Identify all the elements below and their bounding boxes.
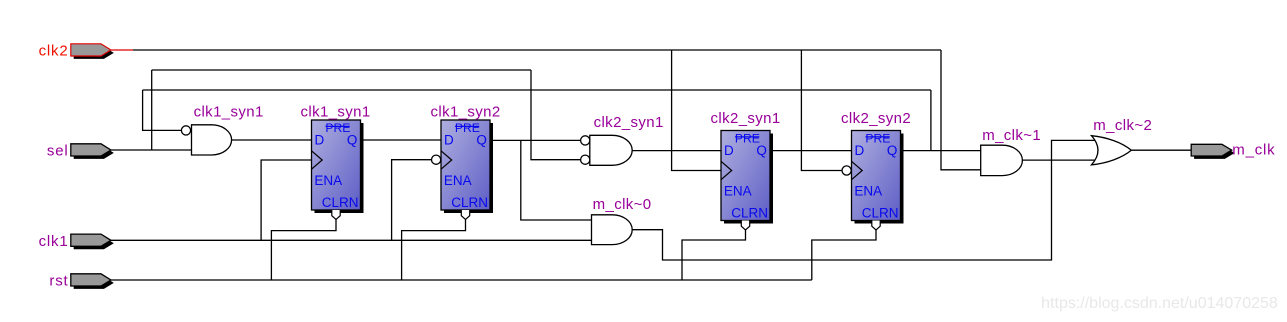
wire clk2_syn1 CLRN to rst [682, 230, 746, 280]
wire feedback drop to clk1_syn1 gate upper bubble [143, 90, 182, 130]
wire m_clk2_syn2 Q feedback y=90 [143, 89, 931, 91]
wire m_clk~2 output to output pin [1131, 149, 1191, 151]
wire clk2_syn1 gate output to clk2_syn1 D [632, 150, 721, 152]
input pin clk2 (red highlighted) [39, 43, 114, 60]
wire clk1_syn1 Q to clk1_syn2 D [361, 139, 442, 141]
svg-text:clk1: clk1 [39, 233, 69, 250]
wire sel feedback top y=70 [152, 69, 531, 71]
svg-text:CLRN: CLRN [862, 205, 899, 220]
svg-text:Q: Q [347, 132, 358, 147]
svg-text:clk2: clk2 [39, 43, 69, 60]
svg-text:clk2_syn1: clk2_syn1 [594, 114, 664, 131]
svg-text:clk1_syn2: clk1_syn2 [431, 103, 501, 120]
gate clk1_syn1 (AND, inverted upper input) [181, 103, 263, 155]
svg-text:https://blog.csdn.net/u0140702: https://blog.csdn.net/u014070258 [1041, 295, 1278, 312]
flip-flop clk2_syn1 (DFF) [711, 110, 781, 230]
output pin m_clk [1191, 141, 1275, 159]
svg-text:rst: rst [49, 273, 68, 290]
svg-text:clk2_syn1: clk2_syn1 [711, 110, 781, 127]
svg-text:ENA: ENA [444, 173, 472, 188]
svg-text:D: D [444, 132, 454, 147]
svg-text:D: D [315, 132, 325, 147]
wire clk2_syn2 Q to m_clk~1 upper input [901, 150, 981, 152]
svg-text:clk1_syn1: clk1_syn1 [194, 103, 264, 120]
svg-text:D: D [855, 143, 865, 158]
input pin clk1 [39, 233, 114, 250]
wire sel feedback riser x=151.7 [151, 70, 153, 150]
svg-text:clk2_syn2: clk2_syn2 [841, 110, 911, 127]
wire m_clk~0 output route to m_clk~2 upper input [632, 140, 1099, 260]
wire clk2 horizontal y=50 [133, 49, 941, 51]
wire clk1 riser to clk1_syn1 clock [261, 160, 311, 240]
wire sel to clk1_syn1 gate lower input [111, 149, 192, 151]
svg-text:m_clk: m_clk [1232, 141, 1275, 158]
flip-flop clk1_syn2 (DFF, inverted clock) [431, 103, 501, 219]
svg-text:Q: Q [887, 143, 898, 158]
wire clk1 riser to clk1_syn2 clock bubble [392, 160, 432, 241]
flip-flop clk1_syn1 (DFF) [301, 103, 371, 219]
wire clk1_syn2 Q to clk2_syn1 gate upper bubble [490, 139, 581, 141]
svg-text:CLRN: CLRN [322, 195, 359, 210]
wire clk2 drop to clk2_syn1 clock [672, 50, 721, 171]
svg-text:ENA: ENA [724, 184, 752, 199]
wire clk2_syn2 CLRN to rst [812, 230, 876, 280]
wire clk1_syn1 CLRN to rst [271, 219, 336, 280]
svg-text:m_clk~1: m_clk~1 [982, 127, 1041, 144]
svg-text:sel: sel [47, 143, 69, 160]
svg-text:ENA: ENA [854, 184, 882, 199]
wire clk1 horizontal y=240.3 [111, 239, 592, 241]
gate m_clk~0 (AND) [592, 196, 652, 245]
svg-text:m_clk~0: m_clk~0 [593, 196, 652, 213]
gate m_clk~1 (AND) [981, 127, 1041, 176]
svg-text:CLRN: CLRN [451, 195, 488, 210]
svg-text:CLRN: CLRN [731, 205, 768, 220]
svg-text:ENA: ENA [314, 173, 342, 188]
flip-flop clk2_syn2 (DFF, inverted clock) [841, 110, 911, 230]
svg-text:Q: Q [476, 132, 487, 147]
wire feedback riser from clk2_syn2 Q junction [930, 90, 932, 151]
gate m_clk~2 (OR) [1092, 117, 1153, 165]
wire clk2_syn1 Q to clk2_syn2 D [770, 150, 852, 152]
wire clk2 red segment at pin [111, 49, 133, 51]
wire m_clk~1 output to m_clk~2 lower input [1022, 159, 1099, 161]
svg-text:clk1_syn1: clk1_syn1 [301, 103, 371, 120]
svg-text:m_clk~2: m_clk~2 [1093, 117, 1152, 134]
wire sel feedback drop to clk2_syn1 gate lower bubble [531, 70, 581, 160]
gate clk2_syn1 (AND, two inverted inputs) [581, 114, 664, 165]
wire clk2 drop to m_clk~1 lower input [941, 50, 981, 170]
wire clk1_syn1 gate output to clk1_syn1 D [232, 139, 312, 141]
svg-text:D: D [724, 143, 734, 158]
wire clk2 drop to clk2_syn2 clock bubble [801, 50, 842, 171]
wire drop clk1_syn2 Q to m_clk~0 upper input [521, 140, 592, 220]
wire rst horizontal y=280 [111, 279, 812, 281]
input pin rst [49, 273, 113, 290]
input pin sel [47, 143, 114, 160]
wire clk1_syn2 CLRN to rst [402, 219, 466, 280]
svg-text:Q: Q [756, 143, 767, 158]
